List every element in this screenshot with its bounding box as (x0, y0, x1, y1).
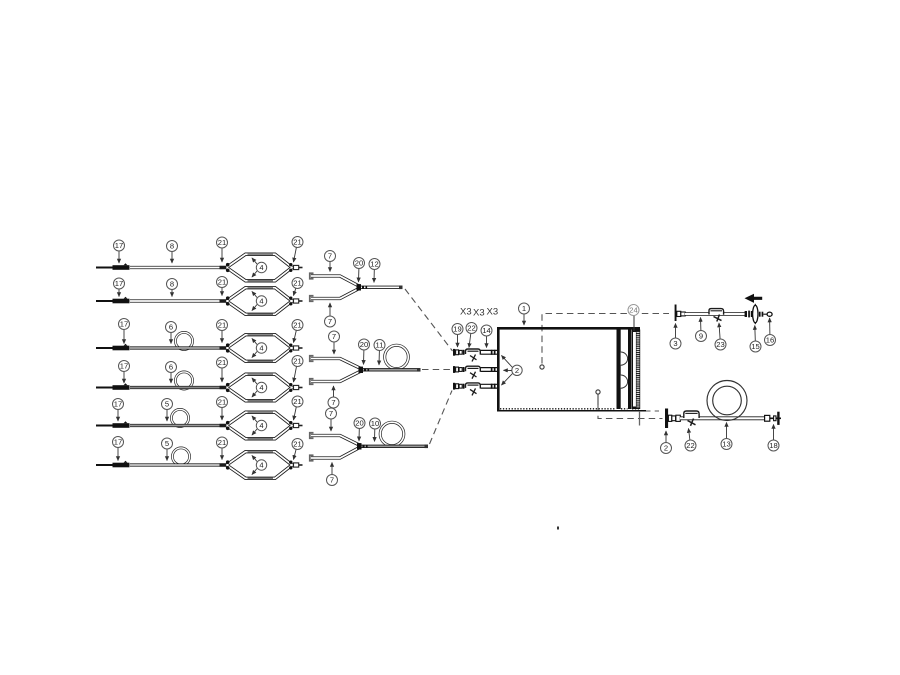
Y-connector outlet tube Y1 (359, 286, 403, 290)
label 4 row 4 (252, 378, 267, 397)
venous luer fittings (668, 415, 680, 421)
label 21 right row 5 (292, 396, 303, 420)
inlet port assembly 3 (19/22/14) (453, 383, 497, 396)
label 21 left row 4 (217, 357, 228, 382)
svg-text:9: 9 (699, 332, 703, 341)
svg-text:20: 20 (360, 340, 368, 349)
svg-text:4: 4 (259, 421, 263, 430)
drip chamber bulb row 4 (226, 374, 293, 401)
injection needle row 6 (96, 461, 133, 468)
svg-text:21: 21 (218, 321, 226, 330)
svg-text:2: 2 (515, 366, 519, 375)
label 12 Y1 (369, 259, 380, 283)
label 15 arterial (750, 326, 761, 353)
tube row 5 (130, 424, 227, 427)
label 4 row 3 (252, 339, 267, 358)
inlet port assembly 1 (19/22/14) (453, 349, 497, 362)
flow direction arrow (745, 294, 763, 303)
venous line end bar (2) (665, 409, 668, 429)
end connector row 2 (294, 299, 303, 303)
outlet coil pre Y2 (385, 345, 409, 369)
end connector row 1 (294, 265, 303, 269)
Y junction Y2 (359, 367, 370, 373)
svg-text:20: 20 (355, 419, 363, 428)
label 21 right row 1 (292, 237, 303, 263)
label 6 row 4 (166, 362, 177, 384)
svg-text:7: 7 (329, 409, 333, 418)
roller bumps (621, 352, 628, 388)
Y-connector outlet tube Y3 (360, 445, 429, 449)
svg-text:17: 17 (120, 320, 128, 329)
label 17 row 4 (119, 361, 130, 384)
tube coil row 5 (171, 409, 188, 426)
Y junction Y1 (357, 284, 368, 290)
drip chamber bulb row 2 (226, 288, 293, 315)
tube row 6 (130, 463, 227, 466)
svg-text:15: 15 (751, 342, 759, 351)
label 16 arterial (765, 318, 776, 346)
svg-text:22: 22 (467, 324, 475, 333)
label 4 row 2 (252, 292, 267, 311)
label 4 row 6 (252, 456, 267, 475)
label 18 venous (768, 425, 779, 452)
label 21 left row 2 (217, 277, 228, 296)
label 22 venous (685, 429, 696, 452)
label 7 top Y2 (329, 331, 340, 354)
svg-text:21: 21 (293, 440, 301, 449)
svg-text:21: 21 (293, 397, 301, 406)
drip chamber bulb row 5 (226, 412, 293, 439)
dashed guide from Y1 outlet to upper port (405, 289, 453, 351)
end connector row 3 (294, 346, 303, 350)
label 19 ports (452, 324, 463, 348)
svg-text:4: 4 (259, 461, 263, 470)
label 21 right row 2 (292, 278, 303, 296)
svg-text:19: 19 (453, 325, 461, 334)
Y-connector inlet tube 7 bottom Y1 (310, 289, 359, 302)
leader line cassette bottom (639, 411, 641, 426)
svg-text:8: 8 (170, 280, 174, 289)
label 5 row 6 (162, 438, 173, 461)
label 8 row 2 (167, 279, 178, 297)
venous coil (13) (707, 381, 747, 421)
node stem lower (597, 394, 599, 405)
label 3 arterial (670, 324, 681, 350)
label 4 row 5 (252, 416, 267, 435)
pinch valve (15) (753, 304, 758, 324)
inlet port assembly 2 (19/22/14) (453, 366, 497, 379)
svg-text:21: 21 (293, 357, 301, 366)
label 21 left row 3 (217, 320, 228, 343)
svg-text:3: 3 (673, 339, 677, 348)
arterial tube (9) (685, 312, 746, 316)
arterial luer fitting (677, 311, 685, 316)
label 1 machine (519, 303, 530, 325)
label 21 right row 3 (292, 320, 303, 343)
arterial connector bands (745, 311, 753, 318)
label 7 bottom Y1 (325, 303, 336, 327)
Y-connector inlet tube 7 bottom Y3 (310, 448, 360, 461)
dashed continuation of box bottom (644, 410, 659, 412)
svg-text:17: 17 (115, 241, 123, 250)
label 7 top Y1 (325, 251, 336, 272)
label 10 Y3 (370, 418, 381, 441)
injection needle row 2 (96, 297, 133, 304)
svg-text:20: 20 (355, 259, 363, 268)
label 17 row 3 (119, 319, 130, 344)
svg-text:21: 21 (218, 278, 226, 287)
svg-text:7: 7 (328, 317, 332, 326)
label 7 top Y3 (326, 408, 337, 431)
Y junction Y3 (357, 443, 368, 449)
Y-connector outlet tube Y2 (361, 368, 421, 372)
dashed guide machine to venous line (598, 405, 663, 419)
tube coil row 3 (175, 332, 192, 349)
dashed guide from Y3 outlet to lower port (430, 391, 453, 445)
label 21 right row 4 (292, 356, 303, 383)
svg-text:21: 21 (218, 238, 226, 247)
drip chamber bulb row 3 (226, 335, 293, 362)
label 17 row 2 (114, 278, 125, 297)
svg-text:23: 23 (716, 340, 724, 349)
svg-text:7: 7 (331, 398, 335, 407)
label 21 left row 1 (217, 237, 228, 262)
injection needle row 1 (96, 263, 133, 270)
roller clamp (22) venous (684, 411, 699, 426)
svg-text:4: 4 (259, 297, 263, 306)
label 21 left row 5 (217, 397, 228, 421)
label 22 ports (466, 323, 477, 348)
label 8 row 1 (167, 241, 178, 264)
label 17 row 1 (114, 240, 125, 263)
end connector row 6 (294, 463, 303, 467)
tube coil row 6 (172, 448, 189, 465)
svg-text:21: 21 (218, 398, 226, 407)
tube row 3 (130, 346, 227, 349)
svg-text:13: 13 (722, 440, 730, 449)
svg-text:17: 17 (120, 362, 128, 371)
internal port node upper (540, 365, 544, 369)
svg-text:4: 4 (259, 263, 263, 272)
svg-text:17: 17 (114, 400, 122, 409)
svg-text:X3: X3 (460, 307, 472, 318)
svg-text:21: 21 (293, 321, 301, 330)
svg-text:5: 5 (165, 400, 169, 409)
svg-text:7: 7 (330, 476, 334, 485)
label 21 left row 6 (217, 437, 228, 460)
svg-text:14: 14 (482, 326, 490, 335)
roller clamp (23) (709, 309, 724, 322)
svg-text:18: 18 (769, 441, 777, 450)
stray dot mark (557, 527, 559, 530)
end connector row 4 (294, 385, 303, 389)
svg-text:16: 16 (766, 336, 774, 345)
label 11 Y2 (374, 340, 385, 365)
leader line 24 into cassette (633, 316, 635, 332)
label 21 right row 6 (292, 439, 303, 460)
label 6 row 3 (166, 322, 177, 344)
svg-text:X3: X3 (473, 308, 485, 319)
drip chamber bulb row 1 (226, 254, 293, 281)
tube row 4 (130, 386, 227, 389)
label 9 arterial (696, 318, 707, 342)
svg-text:2: 2 (664, 444, 668, 453)
machine second bar (628, 329, 631, 409)
svg-text:11: 11 (376, 341, 384, 350)
Y-connector inlet tube 7 top Y1 (310, 273, 359, 286)
label 24 cassette (628, 305, 639, 316)
svg-text:21: 21 (218, 438, 226, 447)
injection needle row 3 (96, 344, 133, 351)
Y-connector inlet tube 7 top Y3 (310, 433, 360, 445)
svg-text:X3: X3 (487, 307, 499, 318)
injection needle row 4 (96, 383, 133, 390)
svg-text:4: 4 (259, 344, 263, 353)
machine inner panel bar (617, 329, 621, 409)
injection needle row 5 (96, 421, 133, 428)
svg-text:5: 5 (165, 439, 169, 448)
label 17 row 5 (113, 399, 124, 422)
Y-connector inlet tube 7 bottom Y2 (310, 371, 361, 384)
svg-text:17: 17 (114, 438, 122, 447)
svg-text:17: 17 (115, 279, 123, 288)
venous end connector (18) (765, 412, 781, 425)
label 20 Y1 (354, 258, 365, 282)
label 7 bottom Y3 (327, 463, 338, 486)
dashed guide from Y2 outlet to middle port (422, 369, 452, 371)
svg-text:21: 21 (218, 358, 226, 367)
label 20 Y2 (359, 339, 370, 364)
svg-text:7: 7 (328, 252, 332, 261)
label 20 Y3 (354, 418, 365, 441)
svg-text:12: 12 (370, 260, 378, 269)
end cap ticks (759, 312, 763, 317)
venous tube (13) (680, 416, 765, 420)
machine box body (1) (497, 327, 646, 412)
end connector row 5 (294, 423, 303, 427)
tube row 2 (130, 299, 227, 302)
tube coil row 4 (175, 372, 192, 389)
tube row 1 (130, 266, 227, 269)
outlet coil pre Y3 (380, 422, 404, 446)
label 2 venous (661, 431, 672, 454)
end plug (16) (763, 312, 772, 316)
internal port node lower (596, 390, 600, 394)
svg-text:6: 6 (169, 363, 173, 372)
label 13 venous (721, 423, 732, 450)
arterial line cross connector (3) (675, 305, 677, 322)
svg-text:7: 7 (332, 332, 336, 341)
label 4 row 1 (252, 258, 267, 277)
label 7 bottom Y2 (328, 386, 339, 408)
svg-text:24: 24 (629, 306, 637, 315)
svg-text:22: 22 (686, 441, 694, 450)
Y-connector inlet tube 7 top Y2 (310, 356, 361, 369)
svg-text:4: 4 (259, 383, 263, 392)
svg-text:21: 21 (293, 238, 301, 247)
svg-text:21: 21 (293, 279, 301, 288)
dashed guide machine to arterial line (542, 314, 669, 364)
svg-text:6: 6 (169, 323, 173, 332)
drip chamber bulb row 6 (226, 452, 293, 479)
label 14 ports (481, 325, 492, 348)
svg-text:8: 8 (170, 242, 174, 251)
label 2 ports (502, 356, 523, 386)
svg-text:10: 10 (371, 419, 379, 428)
label 17 row 6 (113, 437, 124, 461)
label 5 row 5 (162, 399, 173, 422)
cassette strip (24) (632, 330, 640, 410)
label 23 arterial (715, 323, 726, 350)
svg-text:1: 1 (522, 304, 526, 313)
